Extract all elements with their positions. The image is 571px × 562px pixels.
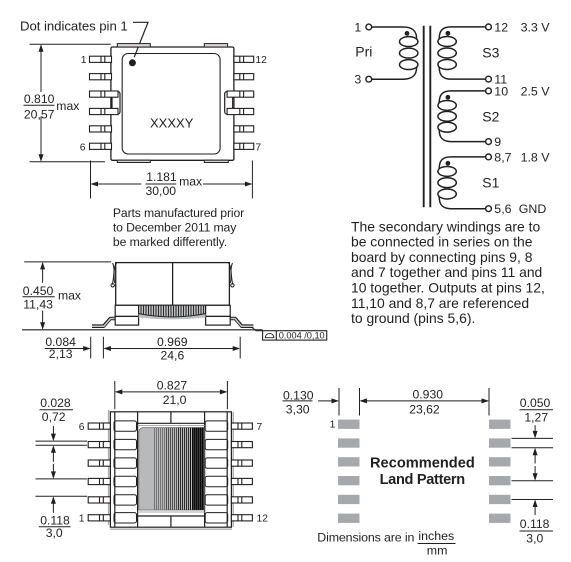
dim label 0.969/24,6 (157, 335, 188, 363)
pin 5,6 terminal (486, 206, 492, 212)
svg-text:20,57: 20,57 (24, 108, 55, 122)
svg-text:GND: GND (519, 202, 547, 216)
svg-text:6: 6 (80, 143, 86, 154)
body upper block (116, 263, 230, 306)
svg-text:1: 1 (81, 55, 87, 66)
svg-text:3,0: 3,0 (46, 526, 63, 540)
body outline (110, 412, 231, 527)
svg-text:max: max (179, 174, 202, 188)
pin label 6 (79, 422, 85, 433)
dim 1.181 dimension line with arrows (91, 182, 253, 187)
dim 0.930 dimension line with arrows (360, 398, 490, 403)
svg-text:12: 12 (494, 20, 508, 34)
svg-text:1.181: 1.181 (146, 170, 177, 184)
svg-text:board by connecting pins 9, 8: board by connecting pins 9, 8 (351, 249, 533, 265)
left column inner wall (137, 412, 139, 527)
pin 3 terminal (366, 76, 372, 82)
svg-text:Recommended: Recommended (370, 455, 475, 471)
pin 1 terminal (366, 24, 372, 30)
pin number 6 (80, 143, 86, 154)
pin label 12 (257, 514, 269, 525)
pitch up arrow (533, 500, 538, 516)
label 10 (494, 84, 508, 98)
dim 1.181 extension line left (90, 161, 92, 199)
svg-text:be marked differently.: be marked differently. (113, 235, 227, 249)
label 3.3 V (521, 20, 551, 34)
pin 11 (234, 74, 254, 80)
svg-text:Land Pattern: Land Pattern (380, 472, 466, 488)
marking XXXXY (150, 116, 194, 131)
dim 0.028 label (40, 396, 71, 424)
svg-text:max: max (56, 99, 79, 113)
body center divider (172, 263, 174, 306)
coil area plain (139, 428, 205, 510)
top edge tab right (204, 44, 227, 47)
pin 4 (90, 108, 119, 114)
bobbin inner edge left (114, 412, 116, 527)
right pad column (489, 420, 511, 523)
core line right (429, 26, 431, 208)
svg-text:S3: S3 (482, 45, 499, 61)
right column slots (205, 421, 228, 523)
top edge tab left (117, 44, 150, 47)
svg-text:and 7 together and pins 11 and: and 7 together and pins 11 and (351, 264, 542, 280)
pin 9 terminal (486, 139, 492, 145)
right pins 12-7 (227, 56, 254, 149)
label 9 (494, 135, 501, 149)
svg-text:1.8 V: 1.8 V (521, 150, 551, 164)
svg-text:3.3 V: 3.3 V (521, 20, 551, 34)
note text: parts manufactured (113, 206, 244, 249)
dim 0.450 vertical dimension line with arrows (40, 262, 45, 330)
label 8,7 (494, 150, 511, 164)
pin 9 (227, 108, 254, 114)
pad 1 label (330, 419, 336, 430)
package inner outline (122, 54, 220, 155)
coplanarity text 0.004/0,10 (279, 331, 325, 341)
svg-text:0.827: 0.827 (157, 378, 188, 392)
dim 1.181 extension line right (251, 161, 253, 199)
dim label 1.181/30,00 max (146, 170, 203, 198)
svg-text:be connected in series on the: be connected in series on the (351, 234, 533, 250)
bottom core bar top edge (138, 515, 205, 517)
svg-text:2.5 V: 2.5 V (521, 84, 551, 98)
label 1.8 V (521, 150, 551, 164)
svg-text:inches: inches (418, 529, 454, 543)
svg-text:Pri: Pri (355, 44, 372, 60)
right bobbin flange (206, 305, 231, 325)
left side clip (112, 92, 120, 115)
label S3 (482, 45, 499, 61)
pad2 edge lines (512, 437, 554, 439)
dim 0.028 up arrow (51, 445, 56, 462)
label 1 (354, 21, 361, 35)
primary winding Pri (372, 27, 418, 79)
dim 0.050 up arrow (533, 448, 538, 464)
dim label 0.084/2,13 (45, 335, 76, 361)
svg-text:Dimensions are in: Dimensions are in (317, 530, 414, 544)
footer fraction bar (418, 543, 456, 545)
pin 10 terminal (486, 88, 492, 94)
svg-text:21,0: 21,0 (163, 393, 187, 407)
dim 0.130 ext lines (338, 388, 340, 416)
pin 8,7 terminal (486, 154, 492, 160)
right corner spring clip (229, 263, 234, 287)
pin 6 (90, 143, 112, 149)
package body outline (111, 47, 234, 160)
core line left (423, 26, 425, 208)
pin 10 (227, 91, 254, 97)
svg-text:0.450: 0.450 (23, 284, 54, 298)
S3 phase dot (446, 31, 451, 36)
dim label 0.930/23,62 (409, 388, 443, 417)
label Pri (355, 44, 372, 60)
coil winding (hatched) (139, 305, 206, 319)
left pins (6..1 top to bottom) (88, 423, 110, 521)
svg-text:3,30: 3,30 (286, 402, 310, 416)
svg-text:0.004 /0,10: 0.004 /0,10 (279, 331, 325, 341)
pin5 edge lines (36, 440, 88, 442)
pin label 1 (79, 514, 85, 525)
svg-text:7: 7 (257, 422, 263, 433)
leader line to pin-1 dot (133, 22, 148, 57)
pin 12 (234, 56, 254, 62)
right column inner wall (204, 412, 206, 527)
svg-text:0.118: 0.118 (520, 517, 550, 531)
svg-text:0.930: 0.930 (413, 388, 444, 402)
pin 11 terminal (486, 76, 492, 82)
pin2 centerline (36, 495, 88, 497)
pin3 centerline (36, 478, 88, 480)
svg-text:Dot indicates pin 1: Dot indicates pin 1 (20, 19, 128, 34)
svg-text:12: 12 (255, 55, 267, 66)
title Recommended Land Pattern (370, 455, 475, 488)
dim 0.084 arrow (76, 346, 91, 351)
dim 0.084 extension lines (90, 337, 92, 359)
svg-text:6: 6 (79, 422, 85, 433)
svg-text:0.969: 0.969 (157, 335, 188, 349)
label S1 (482, 174, 499, 190)
pitch dim down arrow (51, 464, 56, 479)
pin number 1 (81, 55, 87, 66)
label 5,6 (494, 202, 511, 216)
right lead gull-wing (228, 319, 253, 327)
svg-text:10: 10 (494, 84, 508, 98)
svg-text:24,6: 24,6 (161, 349, 185, 363)
pin number 7 (255, 143, 261, 154)
svg-text:Parts manufactured prior: Parts manufactured prior (113, 206, 244, 220)
svg-text:12: 12 (257, 514, 269, 525)
secondary winding S2 (438, 91, 486, 142)
bottom core bar center tick (170, 516, 172, 527)
left lead gull-wing (92, 319, 117, 327)
svg-text:mm: mm (427, 543, 448, 557)
dim 0.969 dimension line with arrows (103, 346, 240, 351)
coplanarity flag box (263, 331, 327, 340)
svg-text:11,43: 11,43 (23, 298, 53, 312)
left pins 1-6 (90, 56, 119, 149)
dim 0.810 extension line top (30, 43, 111, 45)
svg-text:0.130: 0.130 (283, 388, 314, 402)
svg-text:7: 7 (255, 143, 261, 154)
pin number 12 (255, 55, 267, 66)
label 3 (354, 73, 361, 87)
top core bar bottom edge (138, 422, 205, 424)
svg-text:1: 1 (79, 514, 85, 525)
dim label 0.810/20,57 max (24, 92, 79, 121)
svg-text:to December 2011 may: to December 2011 may (113, 221, 237, 235)
svg-text:3,0: 3,0 (526, 531, 543, 545)
svg-text:3: 3 (354, 73, 361, 87)
dim label 0.827/21,0 (157, 378, 188, 407)
pin 7 (234, 143, 254, 149)
coplanarity leader (253, 328, 263, 331)
svg-text:S1: S1 (482, 174, 499, 190)
dim 0.118/3,0 label (40, 514, 70, 541)
note paragraph: secondary windings (351, 218, 545, 326)
svg-text:The secondary windings are to: The secondary windings are to (351, 218, 540, 234)
dim 0.130 arrow (318, 398, 339, 403)
dim 0.118/3,0 label right (520, 517, 550, 545)
svg-text:max: max (58, 288, 81, 302)
dim 0.130 label (283, 388, 314, 416)
svg-text:11,10 and 8,7 are referenced: 11,10 and 8,7 are referenced (351, 295, 529, 311)
dim 0.050 label (520, 396, 551, 424)
top gray line (138, 425, 205, 427)
svg-text:1: 1 (354, 21, 361, 35)
dim 0.810 vertical dimension line with arrows (39, 44, 44, 162)
dim 0.930 ext line right (488, 388, 490, 416)
pin 8 (234, 126, 254, 132)
bottom edge tab left (117, 160, 150, 162)
label: Dot indicates pin 1 (20, 19, 128, 34)
dim 0.969 extension line right (239, 337, 241, 359)
svg-text:8,7: 8,7 (494, 150, 511, 164)
left pad column (338, 420, 360, 523)
svg-text:1: 1 (330, 419, 336, 430)
dim 0.450 extension line top (24, 261, 111, 263)
label 11 (494, 73, 507, 87)
seating plane line (22, 329, 263, 331)
svg-text:1,27: 1,27 (524, 410, 548, 424)
dim label 0.450/11,43 max (23, 284, 81, 312)
svg-text:0.810: 0.810 (24, 92, 55, 106)
bottom edge tab right (204, 160, 228, 162)
body shadow outline (109, 410, 234, 529)
svg-text:XXXXY: XXXXY (150, 116, 194, 131)
svg-text:0,72: 0,72 (42, 410, 66, 424)
svg-text:to ground (pins 5,6).: to ground (pins 5,6). (351, 310, 475, 326)
svg-text:0.050: 0.050 (520, 396, 551, 410)
pin 1 (90, 56, 112, 62)
S2 phase dot (446, 95, 451, 100)
pin 12 terminal (486, 24, 492, 30)
svg-text:S2: S2 (482, 109, 499, 125)
dim 0.827 extension lines (114, 381, 116, 409)
pin 2 (90, 74, 112, 80)
pin 5 (90, 126, 112, 132)
left corner spring clip (111, 263, 117, 287)
dim 0.810 extension line bottom (30, 161, 106, 163)
coil hatch (155, 428, 204, 510)
footer: Dimensions are in inches/mm (317, 529, 454, 557)
secondary winding S3 (438, 27, 486, 79)
pin 1 dot (129, 59, 136, 66)
svg-text:23,62: 23,62 (409, 403, 440, 417)
left column slots (114, 421, 137, 523)
label S2 (482, 109, 499, 125)
label 2.5 V (521, 84, 551, 98)
left bobbin flange (115, 305, 138, 325)
bottom gray line (138, 511, 205, 513)
svg-text:5,6: 5,6 (494, 202, 511, 216)
primary phase dot (405, 31, 410, 36)
svg-text:0.028: 0.028 (40, 396, 71, 410)
svg-text:30,00: 30,00 (146, 184, 177, 198)
dim 0.028 down arrow (51, 426, 56, 441)
S1 phase dot (446, 161, 451, 166)
dim 0.827 dimension line with arrows (115, 389, 228, 394)
right pins (7..12 top to bottom) (231, 423, 252, 521)
label 12 (494, 20, 508, 34)
pad4 centerline (512, 480, 554, 482)
dim 0.050 down arrow (533, 425, 538, 438)
svg-text:10 together. Outputs at pins 1: 10 together. Outputs at pins 12, (351, 280, 545, 296)
bobbin inner edge right (226, 412, 228, 527)
pin 3 (90, 91, 119, 97)
pitch down arrow (533, 466, 538, 481)
pitch dim up arrow (51, 496, 56, 513)
svg-text:2,13: 2,13 (49, 347, 73, 361)
label GND (519, 202, 547, 216)
top core bar center tick (170, 412, 172, 424)
secondary winding S1 (438, 157, 486, 209)
right side clip (225, 92, 233, 115)
pin label 7 (257, 422, 263, 433)
pad5 centerline (512, 499, 554, 501)
svg-text:9: 9 (494, 135, 501, 149)
